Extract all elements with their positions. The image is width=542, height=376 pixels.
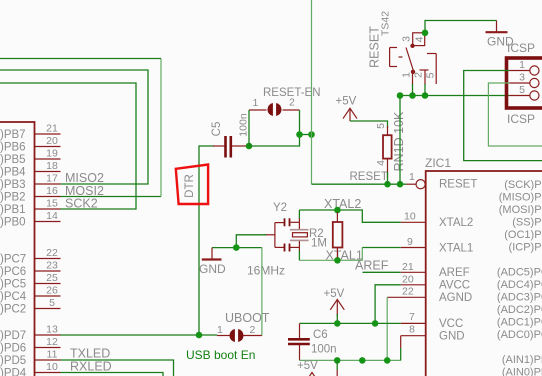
wire gnd rail up to GND pin (400, 348, 402, 360)
wire junction down to UBOOT (236, 247, 262, 249)
junction button pin2 (422, 92, 429, 99)
svg-text:)PC6: )PC6 (0, 266, 26, 278)
svg-text:)PD5: )PD5 (0, 355, 26, 367)
svg-text:AREF: AREF (439, 267, 470, 279)
svg-text:UBOOT: UBOOT (225, 311, 270, 325)
wire VCC rail (300, 322, 401, 324)
junction RN1D bottom (384, 181, 391, 188)
solder jumper RESET-EN (249, 103, 300, 116)
wire XTAL2 net (299, 210, 400, 222)
ZIC1 pin 7 VCC (401, 311, 426, 323)
svg-text:+5V: +5V (336, 96, 357, 108)
svg-text:XTAL1: XTAL1 (439, 243, 473, 255)
svg-text:RESET: RESET (439, 179, 477, 191)
svg-text:10: 10 (404, 211, 416, 223)
svg-text:)PC2: )PC2 (0, 304, 26, 316)
svg-text:16MHz: 16MHz (247, 264, 285, 278)
svg-text:1: 1 (253, 97, 259, 109)
svg-text:(AIN1)PD7: (AIN1)PD7 (502, 354, 542, 366)
svg-text:ICSP: ICSP (507, 41, 535, 55)
svg-text:20: 20 (402, 274, 414, 286)
junction R2 bottom (334, 257, 341, 264)
wire crystal common to GND junction (212, 235, 266, 248)
svg-text:)PB4: )PB4 (0, 167, 26, 179)
ZIC1 pin 9 XTAL1 (401, 236, 426, 248)
IC1 box (left microcontroller, clipped at left edge) (0, 122, 35, 376)
wire RESET-EN pin2 down and to C5 wire (249, 110, 300, 146)
svg-text:2: 2 (250, 324, 256, 336)
wire AVCC down to +5V rail (375, 285, 401, 324)
supply +5V (RN1D) (336, 96, 358, 122)
svg-text:)PD6: )PD6 (0, 343, 26, 355)
svg-text:(ADC4)PC4: (ADC4)PC4 (497, 279, 542, 291)
svg-text:+5V: +5V (324, 288, 345, 300)
top capacitor plates (284, 218, 286, 226)
wire PD7 net to UBOOT (61, 334, 218, 336)
contact bottom (411, 70, 415, 74)
resistor RN1D 10K (383, 126, 392, 178)
svg-text:C5: C5 (211, 122, 223, 137)
resistor R2 1M (333, 212, 343, 258)
junction on DTR reset vertical (308, 131, 315, 138)
svg-text:4: 4 (375, 160, 387, 166)
svg-text:100n: 100n (238, 113, 250, 137)
ground GND (top right) (486, 21, 515, 49)
svg-text:(SCK)PB5: (SCK)PB5 (504, 179, 542, 191)
svg-text:15: 15 (46, 198, 58, 210)
svg-text:(ADC2)PC2: (ADC2)PC2 (497, 304, 542, 316)
svg-text:(SS)PB2: (SS)PB2 (512, 217, 542, 229)
svg-text:DTR: DTR (184, 174, 196, 198)
wire SCK2 net (0, 83, 136, 209)
junction R2 top (334, 207, 341, 214)
svg-text:)PB7: )PB7 (0, 129, 26, 141)
IC1 pin stubs PC7..PC2 (35, 259, 61, 309)
svg-text:5: 5 (519, 84, 525, 96)
supply +5V (bottom, clipped) (297, 360, 319, 376)
svg-text:5: 5 (425, 72, 437, 78)
wire ICSP pin3 (SCK) (488, 83, 542, 146)
pin 2 contact and line (420, 70, 429, 85)
wire MOSI2 net (61, 196, 162, 198)
junction gnd rail 2 (359, 357, 366, 364)
switch arm (406, 48, 414, 72)
ZIC1 right pin names (clipped) (497, 179, 542, 376)
wire stub down from gnd rail (336, 360, 338, 370)
svg-text:8: 8 (409, 324, 415, 336)
junction AVCC on VCC rail (372, 320, 379, 327)
svg-text:18: 18 (46, 160, 58, 172)
svg-text:5: 5 (49, 297, 55, 309)
svg-text:20: 20 (46, 135, 58, 147)
capacitor C6 (288, 323, 310, 360)
junction reset row left (397, 92, 404, 99)
ZIC1 pin 21 AREF (401, 261, 426, 273)
svg-text:17: 17 (46, 173, 58, 185)
wire MISO2 net (0, 70, 148, 184)
svg-text:9: 9 (407, 236, 413, 248)
svg-text:RXLED: RXLED (70, 360, 112, 374)
svg-text:)PB6: )PB6 (0, 142, 26, 154)
svg-text:GND: GND (439, 331, 465, 343)
svg-text:1: 1 (519, 59, 525, 71)
svg-text:)PB5: )PB5 (0, 154, 26, 166)
wire button pin4 up and right to GND (425, 21, 497, 33)
svg-text:1: 1 (217, 324, 223, 336)
svg-text:100n: 100n (311, 344, 337, 356)
wire jumper to main vertical (300, 134, 312, 136)
svg-text:Y2: Y2 (273, 202, 287, 214)
wire button pin2 to row (424, 84, 426, 96)
junction pin4 (422, 30, 429, 37)
svg-text:4: 4 (414, 36, 426, 42)
ZIC1 pin 22 AGND (387, 286, 426, 298)
svg-text:(ADC0)PC0: (ADC0)PC0 (497, 329, 542, 341)
svg-text:VCC: VCC (439, 318, 463, 330)
svg-text:)PB0: )PB0 (0, 217, 26, 229)
svg-text:10: 10 (46, 361, 58, 373)
svg-text:+5V: +5V (297, 360, 318, 372)
svg-text:25: 25 (46, 272, 58, 284)
svg-text:TXLED: TXLED (70, 347, 110, 361)
svg-text:12: 12 (46, 336, 58, 348)
svg-text:21: 21 (46, 123, 58, 135)
supply +5V (C6) (324, 288, 345, 316)
svg-text:1M: 1M (311, 238, 327, 250)
crystal body (293, 233, 308, 237)
svg-text:XTAL2: XTAL2 (324, 197, 361, 211)
IC ZIC1 box (425, 156, 542, 376)
svg-text:13: 13 (46, 324, 58, 336)
svg-text:)PC5: )PC5 (0, 279, 26, 291)
svg-text:AVCC: AVCC (439, 280, 470, 292)
svg-text:)PB2: )PB2 (0, 192, 26, 204)
svg-text:XTAL2: XTAL2 (439, 217, 473, 229)
button actuator bracket (390, 48, 405, 67)
svg-text:(AIN0)PD6: (AIN0)PD6 (502, 367, 542, 376)
junction reset button branch (397, 181, 404, 188)
wire reset button vertical (399, 96, 401, 185)
junction crystal GND node (233, 244, 240, 251)
svg-text:3: 3 (519, 72, 525, 84)
svg-text:ZIC1: ZIC1 (425, 156, 451, 170)
DTR net flag (176, 165, 208, 205)
pushbutton S2 TS42 (368, 11, 437, 85)
wire to UBOOT pin2 (261, 248, 263, 336)
svg-text:)PC4: )PC4 (0, 291, 27, 303)
svg-text:11: 11 (47, 349, 58, 361)
crystal Y2 with built-in capacitors (264, 202, 309, 252)
svg-text:AREF: AREF (355, 259, 389, 273)
svg-text:)PB1: )PB1 (0, 204, 26, 216)
bottom capacitor plates (284, 244, 286, 252)
svg-text:SCK2: SCK2 (65, 197, 98, 211)
svg-text:1: 1 (409, 171, 415, 183)
svg-text:3: 3 (401, 36, 413, 42)
wire RESET horizontal to ZIC1 pin 1 (312, 183, 407, 185)
ZIC1 left pin names (439, 179, 477, 343)
svg-text:(ADC5)PC5: (ADC5)PC5 (497, 267, 542, 279)
ground GND (crystal) (199, 248, 226, 276)
ZIC1 pin 20 AVCC (401, 274, 426, 286)
svg-text:16: 16 (46, 185, 58, 197)
wire reset button row (400, 95, 510, 97)
svg-text:22: 22 (402, 286, 414, 298)
junction on PD7 wire (196, 332, 203, 339)
wire gnd rail (300, 359, 401, 361)
svg-text:)PD7: )PD7 (0, 330, 26, 342)
svg-text:2: 2 (289, 97, 295, 109)
svg-text:(ADC1)PC1: (ADC1)PC1 (497, 317, 542, 329)
junction gnd rail 1 (334, 357, 341, 364)
wire MOSI2 vertical (160, 59, 162, 197)
svg-text:14: 14 (46, 210, 58, 222)
svg-text:22: 22 (46, 247, 58, 259)
pin 4 box (413, 33, 425, 46)
ICSP pin numbers (519, 59, 525, 96)
svg-text:(MOSI)PB3: (MOSI)PB3 (499, 204, 542, 216)
IC1 pin numbers (46, 123, 58, 374)
svg-text:TS42: TS42 (380, 11, 392, 36)
pin 1 line (412, 72, 414, 85)
ZIC1 pin 8 GND (401, 324, 426, 349)
pin 5 contact and line (427, 54, 436, 85)
wire XTAL1 net (299, 248, 362, 261)
svg-text:USB boot En: USB boot En (186, 348, 255, 362)
ZIC1 pin 10 XTAL2 (401, 211, 426, 223)
svg-text:(MISO)PB4: (MISO)PB4 (499, 192, 542, 204)
svg-text:RESET: RESET (350, 171, 388, 183)
svg-text:5: 5 (375, 123, 387, 129)
svg-text:GND: GND (199, 262, 226, 276)
svg-text:(ICP)PB0: (ICP)PB0 (509, 242, 542, 254)
svg-text:2: 2 (413, 72, 425, 78)
solder jumper UBOOT (217, 329, 262, 342)
wire crystal bottom to XTAL1 (298, 251, 300, 261)
IC1 pin stubs PD7..PD4 (35, 335, 61, 373)
svg-text:RN1D 10K: RN1D 10K (392, 111, 406, 171)
svg-text:(OC1)PB1: (OC1)PB1 (504, 229, 542, 241)
wire RN1D bottom to RESET wire (387, 172, 389, 184)
wire XTAL1 to pin 9 (362, 247, 400, 249)
svg-text:)PC7: )PC7 (0, 254, 26, 266)
wire +5V down to VCC rail (336, 314, 338, 323)
ICSP pin stubs (510, 71, 530, 96)
IC1 pin stubs PB7..PB0 (35, 134, 61, 222)
ZIC1 pin 1 RESET with inversion circle (407, 171, 426, 189)
wire DTR vertical from C5 down to PD7 wire (198, 146, 200, 335)
junction AGND on gnd rail (384, 357, 391, 364)
junction button pin1 (409, 92, 416, 99)
wire AREF net (363, 271, 401, 273)
pin stub off-canvas (336, 370, 338, 376)
wire RXLED net (61, 373, 164, 376)
capacitor C5 (198, 136, 249, 158)
svg-text:)PD4: )PD4 (0, 368, 27, 376)
wire AGND down to gnd rail (386, 297, 388, 360)
svg-text:)PB3: )PB3 (0, 179, 26, 191)
svg-text:19: 19 (46, 148, 58, 160)
IC1 pin names (0, 129, 27, 376)
svg-text:21: 21 (402, 261, 414, 273)
contact top (410, 44, 414, 48)
svg-text:7: 7 (409, 311, 415, 323)
junction +5V on VCC rail (334, 320, 341, 327)
svg-text:ICSP: ICSP (507, 112, 535, 126)
wire RESET-EN pin1 down to C5 (248, 110, 250, 146)
wire MOSI2 top run (0, 58, 161, 60)
junction RESET-EN pin2 branch (296, 131, 303, 138)
svg-text:1: 1 (401, 72, 413, 78)
wire long RESET vertical from top edge (311, 0, 313, 184)
ICSP pin circles (530, 66, 539, 100)
svg-text:(ADC3)PC3: (ADC3)PC3 (497, 292, 542, 304)
bottom cap link (290, 240, 300, 251)
connector ICSP box (507, 58, 542, 108)
top cap link (290, 218, 300, 230)
svg-text:23: 23 (46, 260, 58, 272)
wire +5V to RN1D top (350, 121, 388, 128)
crystal plates (290, 229, 309, 231)
wire ICSP pin1 (MISO) (464, 71, 542, 161)
svg-text:26: 26 (46, 285, 58, 297)
wire crystal top to XTAL2 (298, 210, 300, 219)
svg-text:C6: C6 (313, 329, 328, 341)
wire TXLED net (61, 360, 174, 376)
junction C5 right (246, 143, 253, 150)
common lead (case/gnd) (264, 234, 275, 236)
svg-text:AGND: AGND (439, 292, 472, 304)
svg-text:MISO2: MISO2 (65, 171, 104, 185)
case bracket (275, 223, 285, 248)
wire button pin1 to row (412, 84, 414, 96)
